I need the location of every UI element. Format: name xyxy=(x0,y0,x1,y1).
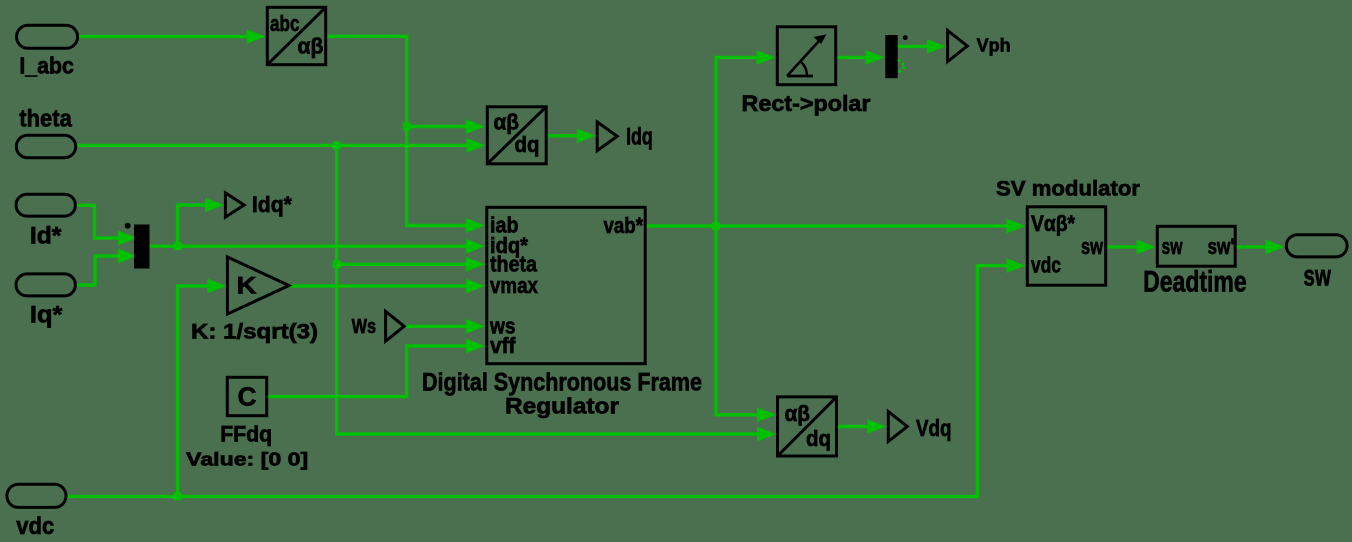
wire Id* to mux xyxy=(77,205,119,238)
goto Idq* xyxy=(225,193,244,217)
svg-text:Vph: Vph xyxy=(977,36,1011,56)
svg-text:Regulator: Regulator xyxy=(505,394,619,419)
mux signal dot xyxy=(125,223,131,229)
svg-text:sw: sw xyxy=(1162,234,1184,259)
svg-text:Ws: Ws xyxy=(352,315,377,338)
wire vab* branch up to Rect-polar xyxy=(716,57,758,226)
svg-text:abc: abc xyxy=(270,11,300,36)
svg-text:Iq*: Iq* xyxy=(30,302,63,329)
svg-text:Vdq: Vdq xyxy=(916,415,952,441)
goto Vdq xyxy=(888,412,907,442)
wire bottom dq block to Vdq goto xyxy=(838,425,868,428)
svg-text:SV modulator: SV modulator xyxy=(996,178,1140,201)
svg-text:Value: [0 0]: Value: [0 0] xyxy=(186,449,308,470)
input port Id* xyxy=(16,194,75,216)
demux unconnected output stub xyxy=(898,60,905,73)
svg-text:Idq: Idq xyxy=(626,123,653,150)
block alpha-beta to dq (bottom) xyxy=(778,397,837,456)
wire theta branch down to bottom dq block xyxy=(337,145,758,434)
svg-text:Id*: Id* xyxy=(30,223,62,250)
svg-text:I_abc: I_abc xyxy=(19,53,74,79)
wire theta main to alpha-beta/dq lower input xyxy=(77,144,467,147)
svg-text:αβ: αβ xyxy=(785,401,811,426)
gain K xyxy=(191,257,318,344)
goto Idq xyxy=(597,122,617,151)
wire branch to alpha-beta/dq top input xyxy=(407,125,467,128)
wire vdc branch up to K gain input xyxy=(178,286,209,496)
wire vab* branch down to bottom dq block xyxy=(716,226,758,415)
svg-text:Idq*: Idq* xyxy=(252,192,292,217)
demux xyxy=(885,35,897,78)
junction vdc xyxy=(174,492,182,500)
block abc to alpha-beta xyxy=(267,7,325,64)
svg-text:dq: dq xyxy=(806,426,831,451)
svg-text:C: C xyxy=(238,382,257,412)
svg-text:vmax: vmax xyxy=(490,273,539,298)
wire Deadtime to sw port xyxy=(1237,245,1267,248)
wire branch up to Idq* goto xyxy=(178,205,207,246)
svg-text:vdc: vdc xyxy=(1031,253,1061,278)
goto Vph xyxy=(948,31,968,62)
wire Iq* to mux xyxy=(77,256,119,285)
wire theta branch to regulator theta input xyxy=(337,263,467,266)
mux xyxy=(134,225,150,269)
svg-text:αβ: αβ xyxy=(494,110,520,135)
wire vab* output to SV modulator xyxy=(647,224,1008,227)
svg-text:Rect->polar: Rect->polar xyxy=(742,91,871,116)
block SV modulator xyxy=(996,178,1140,286)
svg-text:αβ: αβ xyxy=(298,34,324,59)
svg-text:dq: dq xyxy=(515,132,540,157)
junction at abc branch xyxy=(403,123,411,131)
block alpha-beta to dq (top) xyxy=(487,107,546,164)
svg-text:sw: sw xyxy=(1081,234,1104,259)
output port sw xyxy=(1286,235,1347,257)
junction mux output xyxy=(174,242,182,250)
junction vab* xyxy=(712,222,720,230)
wire C constant to regulator vff input xyxy=(267,346,467,398)
input port I_abc xyxy=(17,25,78,48)
wire alpha-beta/dq output to Idq goto xyxy=(548,134,578,137)
wire mux output to regulator idq* input xyxy=(150,244,468,247)
svg-text:Deadtime: Deadtime xyxy=(1143,266,1247,299)
input port Iq* xyxy=(16,274,75,296)
svg-text:Digital Synchronous Frame: Digital Synchronous Frame xyxy=(422,369,702,397)
svg-text:vab*: vab* xyxy=(604,213,644,238)
svg-text:K: K xyxy=(237,273,258,300)
input port vdc xyxy=(7,484,66,507)
constant C FFdq xyxy=(186,377,308,469)
svg-text:vdc: vdc xyxy=(16,513,54,540)
wire Rect-polar to demux xyxy=(837,56,867,59)
wire Ws from-tag to regulator ws input xyxy=(405,325,467,328)
svg-text:theta: theta xyxy=(19,106,72,133)
svg-text:FFdq: FFdq xyxy=(220,422,272,447)
svg-text:K: 1/sqrt(3): K: 1/sqrt(3) xyxy=(191,321,318,344)
wire I_abc to abc block xyxy=(78,35,248,38)
wire K output to regulator vmax input xyxy=(289,284,468,287)
junction theta to regulator xyxy=(333,260,341,268)
demux signal dot xyxy=(903,35,908,40)
svg-text:Vαβ*: Vαβ* xyxy=(1031,211,1075,236)
wire abc block output down to iab input xyxy=(327,35,468,226)
wire vdc main run to SV modulator xyxy=(67,266,1007,497)
svg-text:vff: vff xyxy=(490,333,516,358)
svg-text:sw: sw xyxy=(1303,260,1331,293)
junction theta xyxy=(333,141,341,149)
svg-text:sw': sw' xyxy=(1208,234,1235,259)
wire SV modulator to Deadtime xyxy=(1107,245,1137,248)
block Digital Synchronous Frame Regulator xyxy=(422,207,702,418)
wire demux to Vph goto xyxy=(898,45,928,48)
block Deadtime xyxy=(1143,226,1247,298)
block Rect to polar xyxy=(742,27,871,116)
